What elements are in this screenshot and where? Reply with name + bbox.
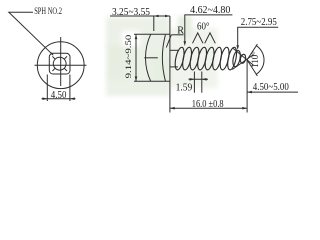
head right face and extension line (169, 16, 171, 113)
arrowhead 4.62 down (184, 41, 187, 46)
dim 4.50~5.00 dimension line (247, 91, 298, 93)
watermark wash main (106, 17, 170, 96)
point lower face (232, 55, 253, 70)
watermark wash dark spot 2 (107, 45, 127, 80)
thread angle chevron right (205, 33, 216, 43)
point thread 2 (240, 54, 247, 64)
arrowhead 4.50~5.00 left (247, 91, 252, 94)
dim 4.50 dimension line (42, 98, 76, 100)
dim 3.25~3.55 dimension line (110, 15, 170, 17)
head dome arc (145, 34, 150, 81)
dim 2.75~2.95 leader line (238, 27, 279, 47)
svg-text:60°: 60° (197, 21, 210, 32)
svg-text:R: R (177, 26, 184, 37)
dim 3.25~3.55 extension left (153, 16, 155, 31)
horizontal centerline front view (35, 64, 87, 66)
arrowhead 16.0 left (170, 107, 175, 110)
svg-text:1.59: 1.59 (176, 82, 193, 93)
arrowhead leader SPH (50, 52, 53, 55)
angle 110 upper side (247, 44, 257, 60)
watermark wash dark spot 1 (150, 55, 172, 83)
recess corner tick NW (52, 56, 55, 59)
head front view circle (37, 42, 84, 89)
recess corner tick NE (64, 56, 67, 59)
point upper face (232, 48, 253, 65)
svg-text:16.0 ±0.8: 16.0 ±0.8 (192, 99, 224, 110)
arrowhead 4.50 left (43, 97, 48, 100)
angle 110 arc (256, 46, 264, 74)
R label underline (171, 34, 183, 36)
arrowhead 9.14 bottom (135, 77, 138, 82)
angle 110 lower side (247, 60, 257, 76)
dim 9.14~9.50 dimension line (135, 34, 137, 81)
dim 1.59 dimension line (189, 78, 209, 80)
R label leader (166, 35, 171, 48)
dim 16.0 extension right (246, 61, 248, 113)
arrowhead 3.25 left (154, 15, 159, 18)
head top edge with extension (134, 33, 170, 35)
svg-text:2.75~2.95: 2.75~2.95 (241, 17, 277, 28)
svg-text:4.50~5.00: 4.50~5.00 (253, 82, 289, 93)
thread turn 2 (181, 47, 193, 71)
svg-text:SPH NO.2: SPH NO.2 (34, 6, 62, 16)
dim 4.50 extension line right (69, 75, 71, 102)
watermark white hole (122, 31, 140, 46)
recess corner tick SW (52, 68, 55, 71)
thread turn 4 (196, 47, 208, 71)
svg-text:4.62~4.80: 4.62~4.80 (190, 5, 230, 16)
head crown arc (162, 35, 165, 81)
svg-text:4.50: 4.50 (51, 90, 67, 101)
arrowhead 4.50 right (70, 97, 75, 100)
recess corner tick SE (64, 68, 67, 71)
recess square (49, 53, 70, 74)
dim 16.0 dimension line (170, 107, 247, 109)
arrowhead 3.25 right (165, 15, 170, 18)
thread angle chevron left (193, 33, 204, 43)
arrowhead 1.59 right (202, 78, 207, 81)
dim 4.62~4.80 leader line (185, 15, 233, 43)
recess circle (53, 57, 66, 70)
dim 1.59 extension left (193, 72, 195, 93)
point thread 1 (232, 50, 242, 67)
svg-text:3.25~3.55: 3.25~3.55 (112, 7, 150, 18)
thread turn 1 (173, 47, 185, 71)
vertical centerline front view (60, 37, 62, 86)
dim 4.50 extension line left (46, 75, 48, 102)
watermark wash dark spot 3 (178, 16, 192, 38)
arrowhead 1.59 left (190, 78, 195, 81)
thread turn 3 (188, 47, 200, 71)
arrowhead 16.0 right (242, 107, 247, 110)
svg-text:9.14~9.50: 9.14~9.50 (123, 34, 133, 78)
head bottom edge with extension (134, 80, 170, 82)
thread turn 8 (226, 47, 238, 71)
dim 1.59 extension right (201, 72, 203, 93)
arrowhead 2.75 down (236, 45, 239, 50)
shank root line bottom (170, 66, 178, 68)
axis centerline tick (144, 57, 158, 59)
svg-text:110°: 110° (250, 51, 260, 68)
watermark wash right (170, 28, 218, 88)
leader SPH NO.2 (9, 12, 53, 55)
thread turn 5 (203, 47, 215, 71)
thread turn 7 (218, 47, 230, 71)
shank root line top (170, 49, 178, 51)
arrowhead 9.14 top (135, 34, 138, 39)
thread turn 6 (211, 47, 223, 71)
